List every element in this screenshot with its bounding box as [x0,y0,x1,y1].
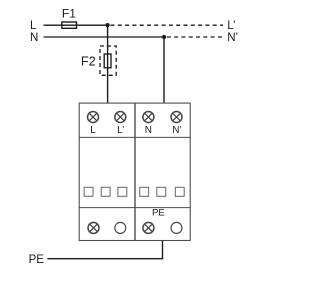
svg-text:PE: PE [29,254,45,266]
svg-text:N: N [30,32,38,44]
svg-text:L’: L’ [227,20,235,32]
svg-text:L’: L’ [117,125,124,136]
svg-text:F1: F1 [62,7,76,21]
svg-text:L: L [30,20,37,32]
svg-text:L: L [90,125,96,136]
svg-text:N: N [145,125,152,136]
svg-text:PE: PE [152,207,165,218]
svg-text:F2: F2 [81,54,96,69]
svg-text:N’: N’ [172,125,181,136]
svg-text:N’: N’ [227,32,238,44]
